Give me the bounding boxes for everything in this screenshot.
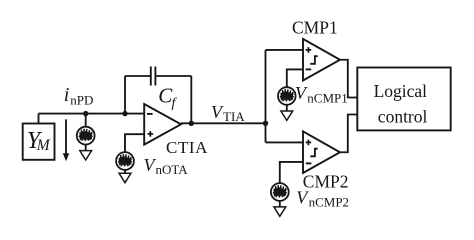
label YM: [27, 128, 51, 154]
node C: feedback joins output: [189, 121, 194, 126]
svg-text:nCMP2: nCMP2: [309, 195, 349, 210]
logical control box: [357, 68, 450, 131]
wire: VnOTA to ground: [124, 170, 126, 173]
admittance YM box: [23, 124, 55, 160]
wire: vertical distribution to both comparators: [265, 50, 267, 142]
wire: feedback top left segment: [125, 75, 150, 77]
comparator U2 CMP1: [303, 39, 340, 81]
svg-text:f: f: [172, 96, 178, 111]
wire: CMP2 inverting input to VnCMP2: [280, 162, 303, 183]
wire: YM stem up to main input rail: [38, 114, 40, 124]
node D: VTIA distribution node: [263, 121, 268, 126]
label Cf: [158, 83, 177, 111]
comparator U3 CMP2: [303, 131, 340, 173]
svg-text:control: control: [378, 107, 428, 127]
svg-text:Logical: Logical: [374, 81, 428, 101]
wire: VnCMP1 to ground: [286, 105, 288, 111]
wire: to CMP1 non-inverting input: [266, 49, 304, 51]
svg-text:nPD: nPD: [70, 92, 93, 107]
op-amp U1 CTIA: [144, 104, 181, 145]
label CTIA: [166, 138, 208, 157]
node A: junction of noise current source on input rail: [83, 111, 88, 116]
ground below VnCMP2: [274, 207, 286, 216]
wire: CMP1 inverting input to VnCMP1: [287, 69, 303, 87]
capacitor Cf plates: [151, 67, 156, 86]
svg-text:CMP1: CMP1: [292, 17, 338, 37]
wire: noise source to ground: [85, 145, 87, 151]
ground below inPD source: [80, 151, 92, 160]
svg-text:V: V: [295, 83, 308, 103]
label VnOTA: [144, 155, 189, 177]
label CMP2: [303, 172, 349, 192]
noise voltage source VnOTA: [116, 152, 134, 170]
ground below VnCMP1: [281, 111, 293, 120]
label CMP1: [292, 17, 338, 37]
wire: main input rail to CTIA inverting input: [39, 113, 145, 115]
svg-text:TIA: TIA: [223, 109, 245, 124]
current direction arrow inPD: [63, 119, 69, 161]
label inPD: [64, 84, 94, 107]
wire: CTIA non-inverting input: [125, 134, 144, 152]
wire: to CMP2 non-inverting input: [266, 141, 304, 143]
noise voltage source VnCMP1: [278, 87, 296, 105]
svg-text:CTIA: CTIA: [166, 138, 208, 157]
svg-text:M: M: [36, 137, 51, 154]
wire: node A down to noise source: [85, 114, 87, 127]
ground below VnOTA: [119, 173, 131, 182]
noise current source inPD: [77, 127, 95, 145]
wire: feedback right vertical down to output node: [190, 76, 192, 123]
label VnCMP2: [296, 187, 349, 209]
label VnCMP1: [295, 83, 348, 105]
svg-text:nOTA: nOTA: [156, 162, 189, 177]
noise voltage source VnCMP2: [271, 183, 289, 201]
wire: feedback left vertical: [124, 76, 126, 114]
wire: CMP2 output to logic box: [340, 115, 357, 153]
svg-text:i: i: [64, 84, 70, 106]
node B: feedback tap on input rail: [122, 111, 127, 116]
label Logical control: [374, 81, 428, 127]
label VTIA: [211, 102, 245, 124]
wire: CTIA output to node D: [181, 122, 266, 124]
wire: feedback top right segment: [156, 75, 191, 77]
wire: CMP1 output to logic box: [340, 60, 357, 98]
svg-text:nCMP1: nCMP1: [307, 90, 347, 105]
wire: VnCMP2 to ground: [279, 201, 281, 207]
svg-text:CMP2: CMP2: [303, 172, 349, 192]
